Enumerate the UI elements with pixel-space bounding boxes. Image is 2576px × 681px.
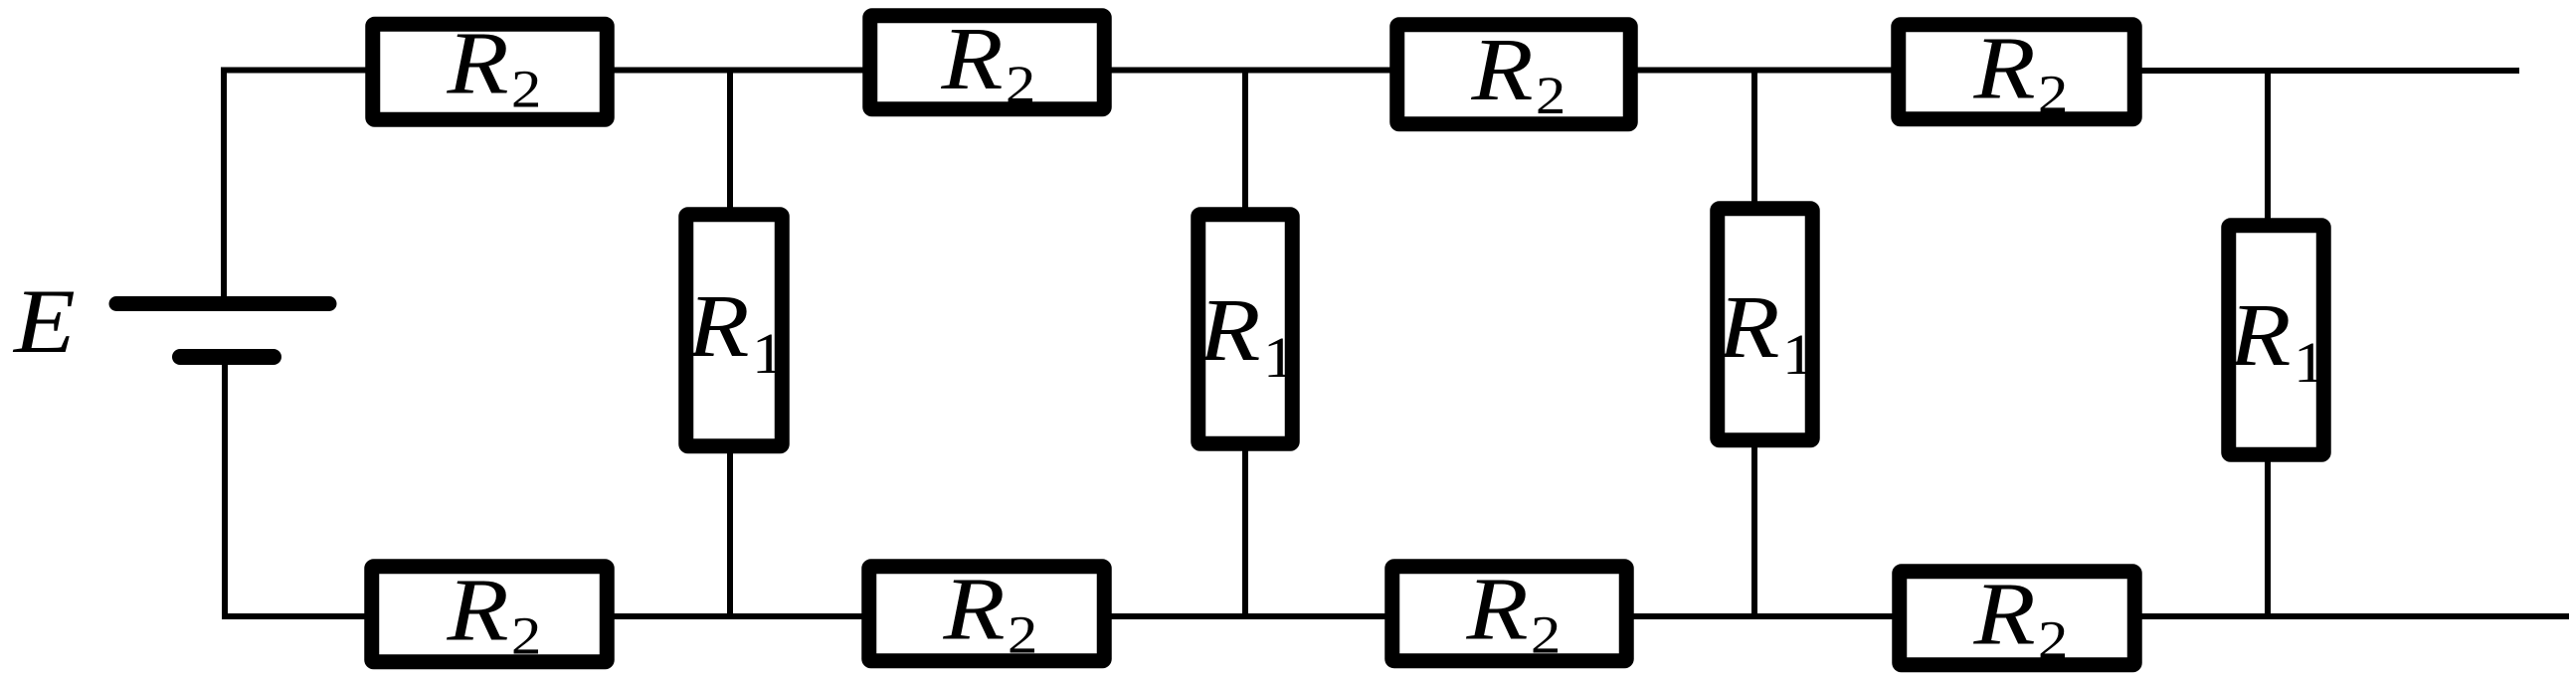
resistor R1 vertical 1: [686, 215, 785, 446]
resistor R1 vertical 4: [2228, 226, 2325, 455]
resistor R2 bottom 1: [372, 560, 608, 666]
wire top rail segment 3: [1107, 68, 1394, 74]
resistor R1 vertical 3: [1717, 209, 1814, 440]
wire top rail segment 2: [610, 68, 867, 74]
wire top rail segment 5: [2137, 68, 2519, 74]
wire node 4 top: [2265, 71, 2271, 222]
wire top rail segment 1: [221, 68, 370, 74]
wire node 1 bottom: [727, 450, 733, 616]
wire node 2 bottom: [1242, 447, 1248, 616]
wire node 2 top: [1242, 71, 1248, 212]
resistor R1 vertical 2: [1197, 215, 1295, 444]
battery E bottom plate: [180, 349, 274, 365]
resistor R2 bottom 4: [1900, 564, 2135, 670]
wire bottom rail segment 3: [1107, 613, 1389, 619]
resistor R2 top 1: [373, 13, 608, 119]
wire bottom rail segment 2: [610, 613, 866, 619]
wire battery positive to top rail: [221, 68, 227, 298]
resistor R2 top 3: [1397, 19, 1631, 125]
battery E top plate: [116, 296, 329, 311]
wire bottom rail segment 4: [1629, 613, 1897, 619]
resistor R2 top 2: [870, 8, 1105, 114]
svg-text:E: E: [12, 270, 76, 372]
wire bottom rail segment 1: [222, 613, 369, 619]
wire node 1 top: [727, 71, 733, 212]
wire node 3 bottom: [1751, 444, 1757, 616]
wire battery negative to bottom rail: [222, 364, 228, 619]
wire node 3 top: [1751, 71, 1757, 206]
wire node 4 bottom: [2265, 458, 2271, 616]
resistor R2 top 4: [1899, 18, 2135, 124]
wire top rail segment 4: [1633, 68, 1896, 74]
wire bottom rail segment 5: [2137, 613, 2569, 619]
resistor R2 bottom 2: [869, 559, 1105, 665]
resistor R2 bottom 3: [1392, 559, 1627, 665]
